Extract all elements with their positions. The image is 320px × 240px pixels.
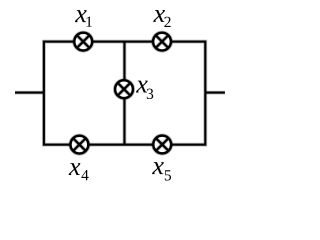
label x2 bbox=[153, 10, 170, 27]
label x4 bbox=[69, 163, 89, 180]
label x1 bbox=[75, 10, 92, 27]
label x5 bbox=[152, 162, 171, 180]
label x3 bbox=[136, 81, 153, 99]
element x4 (circle with X) bbox=[71, 136, 89, 154]
wire: right output lead bbox=[205, 91, 225, 95]
wire: left input lead bbox=[15, 91, 44, 95]
element x2 (circle with X) bbox=[153, 33, 171, 51]
wire: middle vertical branch bbox=[123, 42, 127, 145]
element x1 (circle with X) bbox=[74, 33, 92, 51]
element x5 (circle with X) bbox=[153, 136, 171, 154]
element x3 (circle with X) bbox=[115, 80, 133, 98]
wire: outer rectangle loop bbox=[44, 42, 205, 145]
